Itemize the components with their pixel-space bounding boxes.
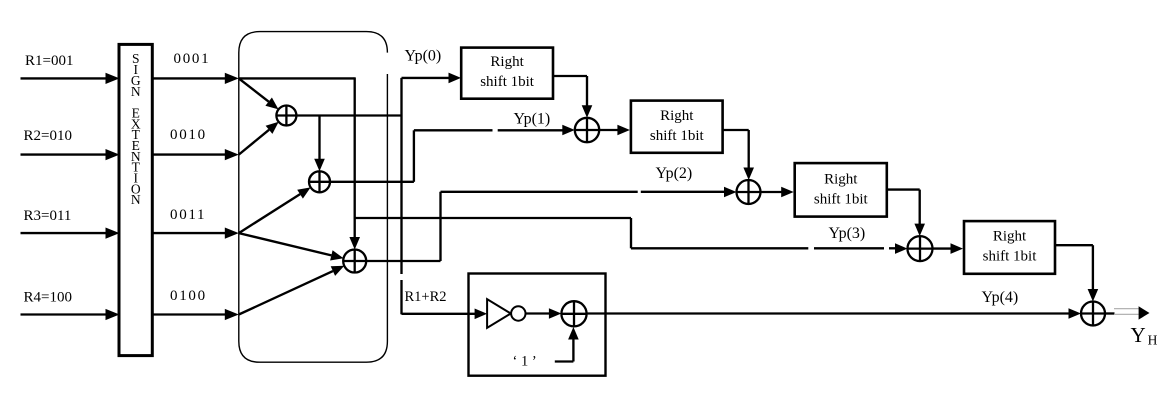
svg-text:N: N xyxy=(131,192,141,207)
wire RS1 to adder A1 xyxy=(553,76,592,118)
adder A2 xyxy=(737,180,761,204)
svg-text:R3=011: R3=011 xyxy=(24,208,72,224)
wire 0001 to adder X1 xyxy=(239,78,279,109)
net label 0010 xyxy=(170,127,207,143)
adder A4 xyxy=(1081,302,1105,326)
net label 0100 xyxy=(170,288,207,304)
wire RS2 to adder A2 xyxy=(723,130,754,180)
wire input R1 xyxy=(21,73,120,84)
wire 0011 to adder X2 xyxy=(239,187,311,233)
wire Yp(2) xyxy=(441,187,737,198)
wire RS3 to adder A3 xyxy=(887,190,925,237)
wire adder A1 to RS2 xyxy=(599,125,630,136)
inverter U1 xyxy=(487,299,525,328)
wire RS4 to adder A4 xyxy=(1055,245,1098,301)
label Yp(4) xyxy=(982,289,1019,306)
sign extension block xyxy=(119,44,152,355)
output label Y_H xyxy=(1131,323,1158,348)
wire adder X3 output to Yp(2) xyxy=(366,192,440,261)
svg-text:Yp(1): Yp(1) xyxy=(514,111,551,128)
net label 0011 xyxy=(170,207,206,223)
svg-text:Yp(2): Yp(2) xyxy=(656,165,693,182)
wire '1' to adder B xyxy=(555,327,579,362)
svg-text:Right: Right xyxy=(993,229,1027,245)
right shift block RS4 xyxy=(964,221,1055,274)
label Yp(1) xyxy=(514,111,551,128)
wire input R2 xyxy=(21,149,120,160)
adder A1 xyxy=(575,118,599,142)
svg-text:Yp(3): Yp(3) xyxy=(829,225,866,242)
input label R2 xyxy=(24,128,72,144)
svg-text:R2=010: R2=010 xyxy=(24,128,72,144)
wire 0011 to adder X3 xyxy=(239,233,344,260)
sign extension label xyxy=(131,51,141,207)
svg-text:shift 1bit: shift 1bit xyxy=(650,128,705,144)
adder B xyxy=(561,301,586,326)
svg-text:Right: Right xyxy=(490,54,524,70)
svg-text:Y: Y xyxy=(1131,323,1146,347)
wire input R4 xyxy=(21,309,120,320)
svg-text:0010: 0010 xyxy=(170,127,207,143)
svg-text:‘ 1 ’: ‘ 1 ’ xyxy=(513,354,537,370)
svg-text:shift 1bit: shift 1bit xyxy=(983,249,1038,265)
svg-text:Yp(0): Yp(0) xyxy=(405,48,442,65)
wire R1+R2 rail xyxy=(400,78,402,314)
svg-text:shift 1bit: shift 1bit xyxy=(480,74,535,90)
svg-text:Right: Right xyxy=(824,172,858,188)
svg-text:R4=100: R4=100 xyxy=(24,290,72,306)
wire 0011 xyxy=(153,228,239,239)
right shift block RS3 xyxy=(795,163,887,217)
adder A3 xyxy=(908,236,933,261)
adder X3 xyxy=(343,250,366,273)
svg-text:Right: Right xyxy=(660,108,694,124)
wire output xyxy=(1105,312,1115,314)
input label R4 xyxy=(24,290,72,306)
wire 0001 down to adder X3 xyxy=(239,77,360,249)
right shift block RS2 xyxy=(631,101,723,153)
label Yp(3) xyxy=(829,225,866,242)
label Yp(0) xyxy=(405,48,442,65)
wire inverter to adder B xyxy=(526,308,562,319)
input label R3 xyxy=(24,208,72,224)
right shift block RS1 xyxy=(461,48,553,99)
label '1' xyxy=(513,354,537,370)
wire adder A2 to RS3 xyxy=(761,187,794,198)
wire adder X1 output xyxy=(296,114,401,116)
wire X1 out to adder X2 xyxy=(314,116,325,172)
wire bundle outline xyxy=(239,32,388,363)
wire Yp(0) xyxy=(402,73,462,84)
net label 0001 xyxy=(174,51,211,67)
wire Yp(4) xyxy=(587,308,1081,319)
svg-text:R1+R2: R1+R2 xyxy=(405,289,447,305)
wire 0010 xyxy=(153,149,239,160)
svg-text:0011: 0011 xyxy=(170,207,206,223)
complement block xyxy=(469,274,606,376)
wire Yp(1) xyxy=(414,125,575,136)
adder X1 xyxy=(276,106,296,126)
svg-text:0100: 0100 xyxy=(170,288,207,304)
wire adder X2 output to Yp(1) xyxy=(330,130,414,182)
adder X2 xyxy=(309,171,330,192)
wire input R3 xyxy=(21,228,120,239)
wire R1+R2 to inverter xyxy=(402,309,488,320)
svg-text:N: N xyxy=(131,84,141,99)
wire Yp(3) xyxy=(355,218,908,254)
svg-text:0001: 0001 xyxy=(174,51,211,67)
wire 0010 to adder X1 xyxy=(239,122,279,155)
label Yp(2) xyxy=(656,165,693,182)
svg-text:Yp(4): Yp(4) xyxy=(982,289,1019,306)
svg-text:R1=001: R1=001 xyxy=(25,53,73,69)
svg-text:H: H xyxy=(1148,333,1158,348)
output open arrow xyxy=(1114,306,1150,319)
label R1+R2 xyxy=(405,289,447,305)
wire 0001 xyxy=(153,73,239,84)
wire 0100 xyxy=(153,309,239,320)
svg-text:shift 1bit: shift 1bit xyxy=(814,192,869,208)
wire 0100 to adder X3 xyxy=(239,266,344,315)
input label R1 xyxy=(25,53,73,69)
wire adder A3 to RS4 xyxy=(933,243,964,254)
